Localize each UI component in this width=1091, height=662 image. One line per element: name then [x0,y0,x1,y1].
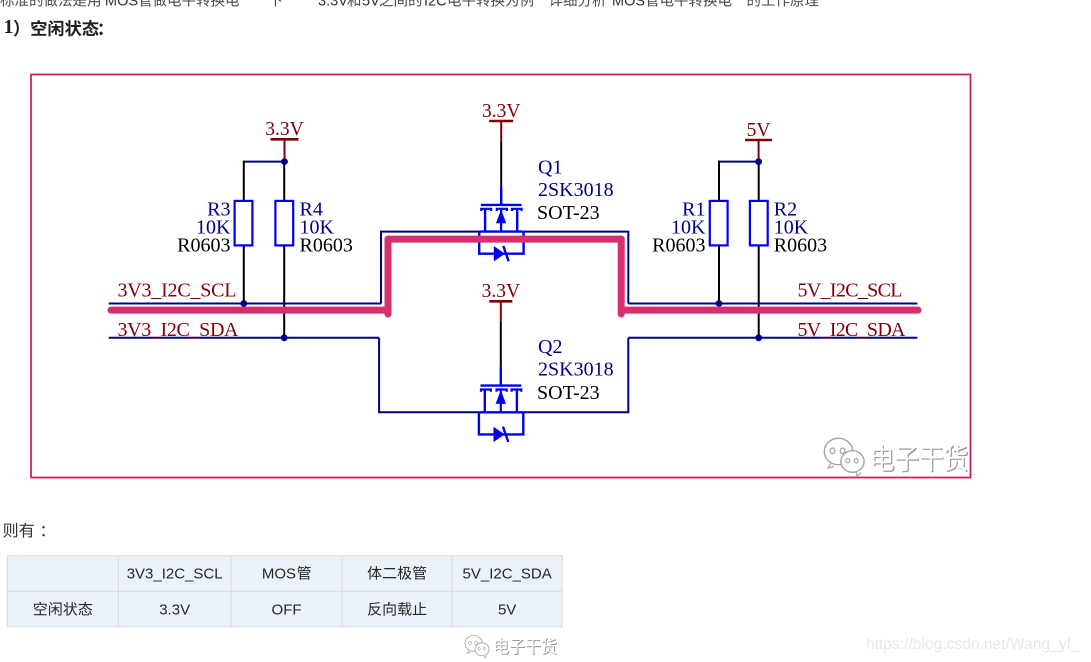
table grid lines [7,556,562,627]
watermark text 电子干货 (in-box) [873,444,968,472]
wire SDA Q2 right to rise [523,338,629,413]
wire 5V_I2C_SCL (right horizontal) [628,303,917,305]
svg-text:MOS: MOS [612,0,645,10]
R1 labels (R1 10K R0603) [652,198,706,256]
power 3.3V (Q1 gate) [482,101,520,141]
R2 labels (R2 10K R0603) [774,198,827,256]
wire SDA drop through Q2 [379,338,479,413]
transistor Q1 (2SK3018) [479,141,523,261]
svg-text:I2C: I2C [424,0,447,10]
wire 5V node to R1/R2 tops [719,161,759,201]
svg-text:Q2: Q2 [538,336,562,358]
junction 3.3V pull-up node [281,158,288,165]
svg-text:SOT-23: SOT-23 [537,202,600,224]
svg-text:R0603: R0603 [300,234,353,256]
svg-text:5V_I2C_SDA: 5V_I2C_SDA [463,566,552,583]
wire SCL rise left vertical [381,232,479,304]
heading 1) idle state [4,16,103,38]
R3 labels (R3 10K R0603) [177,198,231,256]
svg-text:3V3_I2C_SCL: 3V3_I2C_SCL [127,566,223,583]
Q1 labels (Q1 2SK3018 SOT-23) [537,156,614,223]
watermark logo (bottom) [465,635,489,658]
junction 5V pull-up node [755,158,762,165]
svg-text:5V: 5V [362,0,380,10]
svg-text:MOS: MOS [105,0,138,10]
svg-text:Q1: Q1 [538,156,562,178]
svg-text:https://blog.csdn.net/Wang_yf_: https://blog.csdn.net/Wang_yf_ [866,636,1080,653]
junction R4-SDA [281,334,288,341]
svg-text:3.3V: 3.3V [265,119,303,140]
junction R3-SCL [240,300,247,307]
highlighted SCL trace (pink) [111,239,918,314]
svg-text:5V_I2C_SDA: 5V_I2C_SDA [798,319,907,341]
power 5V rail (right pull-ups) [745,120,772,162]
resistor R3 [235,201,253,304]
table data row [34,602,516,619]
wire 5V_I2C_SDA (right horizontal) [628,337,917,339]
wire 3.3V node to R3/R4 tops [244,161,285,201]
svg-text:R0603: R0603 [652,234,705,256]
svg-text:3.3V: 3.3V [482,101,520,122]
table background [7,556,562,627]
R4 labels (R4 10K R0603) [300,198,353,256]
svg-text:OFF: OFF [272,602,302,619]
svg-text:1: 1 [4,16,14,38]
svg-text:2SK3018: 2SK3018 [538,179,614,201]
svg-text:3.3V: 3.3V [318,0,348,10]
resistor R1 [710,201,728,304]
svg-text:3V3_I2C_SDA: 3V3_I2C_SDA [118,319,240,341]
watermark text 电子干货 (bottom) [495,637,557,655]
svg-text:2SK3018: 2SK3018 [538,359,614,381]
wire 3V3_I2C_SDA (left horizontal) [109,337,379,339]
wire 3V3_I2C_SCL (left horizontal) [109,303,381,305]
junction R2-SDA [755,334,762,341]
svg-text:5V_I2C_SCL: 5V_I2C_SCL [798,279,903,301]
svg-text:5V: 5V [747,120,771,141]
svg-text:R0603: R0603 [177,234,230,256]
resistor R4 [275,201,293,338]
resistor R2 [750,201,768,338]
junction R1-SCL [716,300,723,307]
power 3.3V rail (left pull-ups) [265,119,303,161]
svg-text:R0603: R0603 [774,234,827,256]
svg-text:3.3V: 3.3V [159,602,190,619]
svg-text:SOT-23: SOT-23 [537,382,600,404]
Q2 labels (Q2 2SK3018 SOT-23) [537,336,614,404]
wire SCL through Q1 to right vertical [523,232,628,304]
svg-text:5V: 5V [498,602,516,619]
top clipped text line [0,0,818,10]
power 3.3V (Q2 gate) [482,281,520,322]
svg-text:3.3V: 3.3V [482,281,520,302]
table header row [127,566,552,583]
paragraph 则有： [3,523,45,538]
transistor Q2 (2SK3018) [479,322,524,442]
watermark logo (in-box) [824,438,864,476]
svg-text:3V3_I2C_SCL: 3V3_I2C_SCL [118,279,237,301]
svg-text:MOS: MOS [262,566,296,583]
